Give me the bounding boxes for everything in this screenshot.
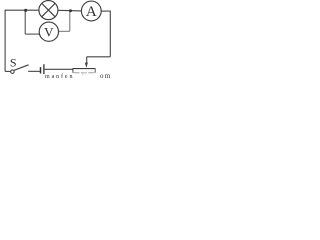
wire voltmeter left branch — [25, 10, 40, 34]
rheostat box left — [72, 68, 74, 73]
wire ammeter to right corner — [101, 10, 110, 12]
switch S blade — [14, 65, 29, 71]
svg-text:om: om — [100, 72, 111, 80]
rheostat box bottom (faint) — [73, 72, 95, 74]
svg-text:S: S — [10, 55, 17, 69]
svg-text:manfen: manfen — [45, 73, 74, 80]
rheostat slider arrowhead — [85, 63, 88, 68]
rheostat box top — [73, 68, 95, 70]
wire right vertical — [109, 11, 111, 57]
ammeter A — [81, 1, 101, 21]
wire lamp to ammeter — [58, 9, 82, 12]
wire switch stub — [5, 70, 11, 72]
node junction right — [69, 9, 72, 12]
wire switch to battery — [28, 70, 40, 72]
wire top horizontal — [5, 9, 39, 11]
node junction left — [24, 9, 27, 12]
wire horizontal to slider — [87, 56, 111, 58]
watermark remnant near rheostat — [83, 73, 87, 75]
voltmeter V — [39, 22, 58, 41]
wire left vertical — [4, 10, 6, 72]
lamp L — [39, 1, 58, 20]
wire voltmeter right branch — [58, 11, 69, 32]
wire battery to rheostat — [45, 68, 73, 70]
battery long plate — [43, 64, 45, 74]
svg-text:V: V — [44, 25, 54, 40]
battery short plate — [40, 67, 42, 73]
wire slider drop — [86, 57, 88, 63]
switch S pivot — [11, 70, 15, 74]
rheostat box right — [94, 68, 96, 73]
svg-text:A: A — [86, 4, 97, 20]
